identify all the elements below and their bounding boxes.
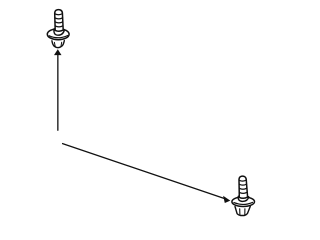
bolt B2 dome base line — [239, 180, 246, 181]
bolt B2 hex facet right — [244, 209, 246, 215]
bolt B1 hex facet right — [60, 42, 63, 47]
wire leader line diagonal — [63, 144, 224, 199]
bolt B1 thread 1 — [55, 18, 63, 19]
bolt B1 flange inner rim arc — [49, 36, 67, 38]
bolt B1 thread 2 — [55, 22, 63, 23]
bolt B1 dome base line — [55, 14, 63, 15]
bolt B1 shaft outline — [55, 10, 64, 32]
bolt B2 hex head — [235, 206, 250, 215]
arrow to bolt B1 — [54, 49, 62, 55]
bolt B2 (lower-right flange bolt) — [232, 176, 255, 215]
bolt B2 hex facet left — [239, 209, 241, 215]
bolt B2 flange outer ellipse — [232, 197, 255, 207]
bolt B1 flange outer ellipse — [47, 29, 69, 40]
bolt B2 thread 1 — [239, 184, 246, 185]
bolt B1 collar cup — [54, 28, 64, 35]
bolt B1 hex facet left — [53, 42, 56, 47]
bolt B1 hex head — [52, 41, 64, 48]
bolt B2 thread 2 — [239, 188, 247, 189]
wire leader line vertical — [57, 55, 59, 130]
bolt B2 shaft outline — [239, 176, 248, 198]
bolt B2 flange inner rim arc — [234, 202, 253, 204]
arrow to bolt B2 — [223, 196, 230, 203]
bolt B2 thread 3 — [239, 192, 247, 193]
bolt B1 (upper-left flange bolt) — [47, 10, 69, 48]
bolt B1 thread 3 — [55, 26, 63, 27]
bolt B2 collar cup — [238, 196, 249, 202]
